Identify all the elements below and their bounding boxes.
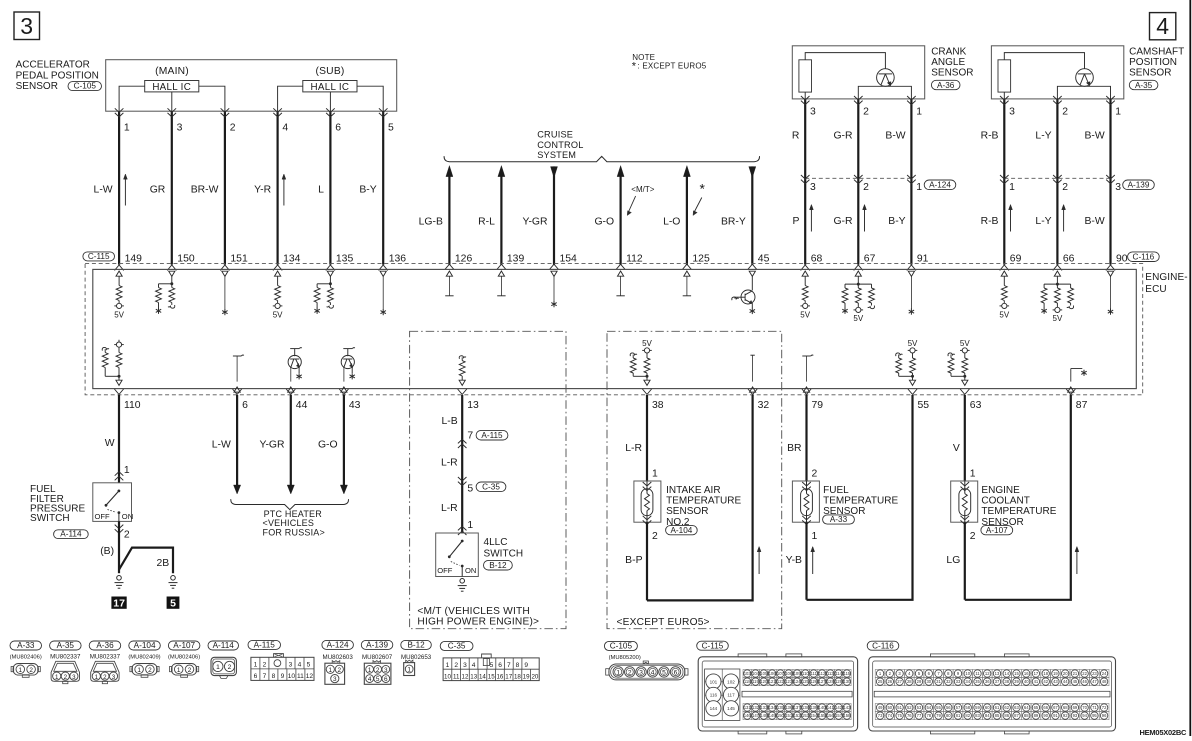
camshaft sensor box	[991, 46, 1123, 99]
svg-text:V: V	[953, 443, 960, 454]
svg-text:145: 145	[727, 706, 735, 711]
svg-text:121: 121	[769, 679, 777, 684]
svg-text:62: 62	[1004, 705, 1009, 710]
svg-text:147: 147	[752, 713, 760, 718]
svg-text:5: 5	[376, 676, 380, 683]
svg-text:150: 150	[777, 713, 785, 718]
ECU connector dashed outline	[85, 264, 1143, 395]
wire L-R from ECU to sensor	[646, 395, 648, 481]
svg-text:SWITCH: SWITCH	[484, 548, 524, 559]
svg-text:66: 66	[1063, 254, 1075, 265]
svg-text:13: 13	[467, 400, 479, 411]
wire Y-GR cruise to ECU 154	[551, 167, 558, 178]
svg-text:5V: 5V	[908, 339, 918, 348]
signal arrow sensor wire 1	[1010, 207, 1012, 232]
svg-text:1: 1	[970, 468, 976, 479]
signal arrow accel sub	[283, 177, 285, 206]
connector drawing A-124	[332, 661, 340, 664]
connector label C-115	[83, 252, 115, 261]
page number box 4	[1150, 13, 1176, 40]
svg-text:L-Y: L-Y	[1035, 216, 1051, 227]
svg-text:B-W: B-W	[1084, 131, 1104, 142]
sensor wire L-Y pin 2 to ECU 66	[1056, 99, 1058, 265]
svg-text:HIGH POWER ENGINE)>: HIGH POWER ENGINE)>	[417, 617, 539, 628]
svg-text:6: 6	[384, 676, 388, 683]
svg-text:BR-W: BR-W	[191, 184, 219, 195]
signal arrow on sensor return	[1076, 549, 1078, 574]
svg-text:11: 11	[975, 671, 980, 676]
connector id A-124	[322, 640, 354, 649]
svg-text:A-114: A-114	[60, 530, 82, 539]
switch lever	[118, 490, 121, 493]
temperature sensor box	[951, 481, 978, 522]
svg-text:FUEL: FUEL	[823, 485, 849, 496]
svg-text:16: 16	[1024, 671, 1029, 676]
svg-text:71: 71	[1092, 705, 1097, 710]
connector id A-35	[50, 641, 82, 650]
svg-text:57: 57	[956, 705, 961, 710]
svg-text:89: 89	[1034, 713, 1039, 718]
svg-text:A-139: A-139	[366, 641, 388, 650]
ECU internal line pin 136	[380, 271, 386, 276]
ECU internal line pin 90	[1107, 271, 1113, 276]
svg-text:SWITCH: SWITCH	[30, 513, 70, 524]
sensor internal resistor	[998, 60, 1011, 92]
svg-text:65: 65	[1034, 705, 1039, 710]
svg-text:96: 96	[1102, 713, 1107, 718]
svg-text:120: 120	[760, 679, 768, 684]
svg-text:B-W: B-W	[1084, 216, 1104, 227]
wire G-O PTC heater	[343, 395, 345, 488]
svg-text:3: 3	[112, 674, 116, 681]
svg-text:2: 2	[1062, 182, 1068, 193]
svg-text:24: 24	[1102, 671, 1107, 676]
svg-text:91: 91	[1053, 713, 1058, 718]
svg-text:HALL IC: HALL IC	[311, 82, 350, 93]
svg-text:74: 74	[887, 713, 892, 718]
svg-text:(MU802406): (MU802406)	[168, 655, 200, 661]
svg-text:L-R: L-R	[441, 458, 458, 469]
svg-text:C-105: C-105	[74, 82, 97, 91]
ECU internal line pin 91	[908, 271, 914, 276]
sensor wire B-W pin 1 to ECU 90	[1109, 99, 1111, 265]
svg-text:138: 138	[802, 705, 810, 710]
svg-text:79: 79	[936, 713, 941, 718]
svg-text:134: 134	[769, 705, 777, 710]
signal arrow sensor wire 2	[864, 207, 866, 232]
ECU internal resistor pair pin 135	[327, 271, 333, 276]
wire GR accel pin 3 to ECU 150	[171, 111, 173, 264]
connector id A-107	[168, 641, 200, 650]
hall ic sub leads	[278, 86, 303, 111]
ECU bottom pin 79	[802, 389, 811, 394]
svg-text:<M/T>: <M/T>	[631, 185, 654, 194]
svg-text:1: 1	[55, 674, 59, 681]
connector drawing oval 2pin	[132, 664, 157, 676]
svg-text:<EXCEPT EURO5>: <EXCEPT EURO5>	[617, 617, 710, 628]
svg-text:POSITION: POSITION	[1129, 57, 1177, 68]
svg-text:7: 7	[263, 673, 267, 680]
wire 2B branch	[119, 548, 173, 574]
svg-text:29: 29	[917, 679, 922, 684]
svg-text:MU802337: MU802337	[90, 654, 121, 661]
svg-text:7: 7	[507, 662, 511, 669]
svg-text:78: 78	[926, 713, 931, 718]
svg-text:3: 3	[1009, 107, 1015, 118]
ECU internal output pin 79	[802, 355, 810, 357]
connector drawing A-114	[211, 657, 236, 675]
wire LG-B cruise to ECU 126	[446, 166, 453, 177]
svg-text:127: 127	[819, 679, 827, 684]
svg-text:158: 158	[843, 713, 851, 718]
svg-text:12: 12	[306, 673, 314, 680]
connector id C-116	[867, 641, 899, 650]
svg-text:130: 130	[843, 679, 851, 684]
svg-text:TEMPERATURE: TEMPERATURE	[823, 496, 898, 507]
svg-text:A-35: A-35	[57, 641, 75, 650]
svg-text:32: 32	[758, 400, 770, 411]
svg-text:9: 9	[281, 673, 285, 680]
wire L-O cruise to ECU 125	[683, 166, 690, 177]
connector drawing oval 2pin	[13, 664, 38, 676]
svg-text:155: 155	[819, 713, 827, 718]
svg-text:44: 44	[296, 400, 308, 411]
svg-text:45: 45	[1073, 679, 1078, 684]
svg-text:3: 3	[20, 13, 33, 39]
svg-text:2: 2	[454, 662, 458, 669]
svg-text:1: 1	[216, 664, 220, 671]
svg-text:P: P	[792, 216, 799, 227]
svg-text:A-36: A-36	[937, 81, 955, 90]
svg-text:5: 5	[662, 670, 666, 677]
svg-text:25: 25	[878, 679, 883, 684]
hall ic main leads	[119, 86, 145, 111]
svg-text:(MAIN): (MAIN)	[155, 66, 189, 77]
svg-text:21: 21	[1073, 671, 1078, 676]
svg-text:1: 1	[95, 674, 99, 681]
svg-text:64: 64	[1024, 705, 1029, 710]
svg-text:67: 67	[1053, 705, 1058, 710]
ECU bottom pin 38	[642, 389, 651, 394]
svg-text:107: 107	[777, 671, 785, 676]
svg-text:66: 66	[1043, 705, 1048, 710]
svg-text:CRANK: CRANK	[931, 46, 966, 57]
svg-text:40: 40	[1024, 679, 1029, 684]
svg-text:1: 1	[368, 667, 372, 674]
signal arrow on sensor return	[758, 549, 760, 574]
svg-text:39: 39	[1014, 679, 1019, 684]
svg-text:94: 94	[1082, 713, 1087, 718]
svg-text:2: 2	[338, 667, 342, 674]
svg-text:70: 70	[1082, 705, 1087, 710]
svg-text:G-R: G-R	[833, 131, 853, 142]
svg-text:102: 102	[727, 679, 735, 684]
svg-text:51: 51	[897, 705, 902, 710]
sensor internal wiring	[1004, 53, 1084, 69]
svg-text:13: 13	[995, 671, 1000, 676]
svg-text:BR: BR	[787, 443, 802, 454]
wire B-P sensor to loop	[646, 522, 648, 600]
svg-text:11: 11	[453, 673, 460, 680]
svg-text:A-115: A-115	[481, 431, 503, 440]
svg-text:A-124: A-124	[929, 181, 951, 190]
connector label A-36	[931, 80, 960, 89]
svg-text:149: 149	[125, 254, 143, 265]
svg-text:92: 92	[1063, 713, 1068, 718]
svg-text:3: 3	[463, 662, 467, 669]
ECU internal line pin 151	[222, 271, 228, 276]
ECU bottom pin 6	[233, 389, 242, 394]
svg-text:1: 1	[916, 107, 922, 118]
svg-text:A-107: A-107	[986, 526, 1008, 535]
svg-text:52: 52	[907, 705, 912, 710]
ECU internal resistor triple pin 67	[855, 271, 861, 276]
connector id C-115	[697, 641, 729, 650]
svg-text:43: 43	[1053, 679, 1058, 684]
svg-text:142: 142	[835, 705, 843, 710]
ECU internal transistor pin 45	[749, 271, 755, 276]
ECU internal pull-up 5V pin 68	[802, 271, 808, 276]
svg-text:Y-R: Y-R	[254, 184, 271, 195]
svg-text:37: 37	[995, 679, 1000, 684]
svg-text:A-33: A-33	[830, 515, 848, 524]
sensor output bus	[858, 86, 911, 99]
wire B-Y accel pin 5 to ECU 136	[382, 111, 384, 264]
svg-text:54: 54	[926, 705, 931, 710]
ECU bottom pin 87	[1066, 389, 1075, 394]
svg-text:HALL IC: HALL IC	[152, 82, 191, 93]
svg-text:14: 14	[479, 673, 486, 680]
ECU bottom pin 44	[286, 389, 295, 394]
connector label A-107	[981, 526, 1013, 535]
svg-text:1: 1	[1115, 107, 1121, 118]
fuel filter pressure switch box	[93, 483, 132, 522]
ECU internal divider pin 110	[118, 340, 120, 342]
svg-text:2: 2	[863, 107, 869, 118]
svg-text:TEMPERATURE: TEMPERATURE	[666, 496, 741, 507]
svg-text:104: 104	[752, 671, 760, 676]
svg-text:G-O: G-O	[594, 217, 614, 228]
intermediate connector dashed line A-124	[805, 177, 911, 179]
svg-text:43: 43	[349, 400, 361, 411]
page divider border right edge	[1189, 0, 1191, 736]
svg-text:1: 1	[467, 520, 473, 531]
svg-text:2: 2	[263, 662, 267, 669]
connector label A-104	[666, 526, 698, 535]
wire R-L cruise to ECU 139	[498, 166, 505, 177]
connector drawing trapezoid 3pin	[91, 661, 119, 681]
svg-text:1: 1	[1009, 182, 1015, 193]
connector label A-33	[823, 515, 855, 524]
connector label C-116	[1128, 252, 1160, 262]
connector id C-105	[604, 641, 637, 650]
svg-text:A-124: A-124	[327, 641, 349, 650]
svg-text:BR-Y: BR-Y	[721, 217, 746, 228]
svg-text:2: 2	[148, 667, 152, 674]
connector label B-12	[484, 560, 513, 570]
svg-text:69: 69	[1010, 254, 1022, 265]
connector label A-139	[1123, 180, 1155, 190]
svg-text:1: 1	[19, 667, 23, 674]
svg-text:77: 77	[917, 713, 922, 718]
svg-text:88: 88	[1024, 713, 1029, 718]
svg-text:8: 8	[516, 662, 520, 669]
svg-text:87: 87	[1076, 400, 1088, 411]
svg-text:2: 2	[812, 468, 818, 479]
sensor wire R-B pin 3 to ECU 69	[1003, 99, 1005, 265]
svg-text:3: 3	[810, 107, 816, 118]
svg-text:10: 10	[288, 673, 296, 680]
wire G-O cruise to ECU 112	[617, 166, 624, 177]
svg-text:4: 4	[282, 123, 288, 134]
ECU internal line pin 154	[551, 271, 557, 276]
svg-text:157: 157	[835, 713, 843, 718]
ECU internal pull-up 5V pin 149	[116, 271, 122, 276]
svg-text:5V: 5V	[999, 310, 1009, 319]
svg-text:112: 112	[626, 254, 643, 265]
svg-text:84: 84	[985, 713, 990, 718]
svg-text:2: 2	[230, 123, 236, 134]
connector drawing trapezoid 3pin	[51, 661, 79, 681]
svg-text:2: 2	[64, 674, 68, 681]
svg-text:1: 1	[254, 662, 258, 669]
svg-text:75: 75	[897, 713, 902, 718]
connector drawing B-12	[406, 660, 413, 662]
svg-text:117: 117	[727, 693, 735, 698]
svg-text:*: *	[632, 60, 637, 72]
sensor wire B-W pin 1 to ECU 91	[910, 99, 912, 265]
svg-text:136: 136	[389, 254, 407, 265]
svg-text:PEDAL POSITION: PEDAL POSITION	[16, 70, 99, 81]
connector id A-114	[208, 641, 239, 650]
signal arrow sensor wire 2	[1063, 207, 1065, 232]
svg-text:125: 125	[692, 254, 710, 265]
svg-text:5V: 5V	[960, 339, 970, 348]
svg-text:19: 19	[1053, 671, 1058, 676]
svg-text:(SUB): (SUB)	[315, 66, 344, 77]
svg-text:6: 6	[242, 400, 248, 411]
svg-text:A-104: A-104	[134, 641, 156, 650]
svg-text:1: 1	[916, 182, 922, 193]
svg-text:115: 115	[844, 671, 851, 676]
ECU internal input pin 112	[618, 271, 624, 276]
ECU internal transistor pin 43	[343, 348, 352, 350]
svg-text:154: 154	[810, 713, 818, 718]
svg-text:136: 136	[785, 705, 793, 710]
svg-text:86: 86	[1004, 713, 1009, 718]
svg-text:B-W: B-W	[885, 131, 905, 142]
svg-text:47: 47	[1092, 679, 1097, 684]
svg-text:SENSOR: SENSOR	[1129, 68, 1171, 79]
svg-text:ENGINE-: ENGINE-	[1145, 272, 1187, 283]
svg-text:4: 4	[368, 676, 372, 683]
svg-text:15: 15	[1014, 671, 1019, 676]
svg-text:1: 1	[177, 667, 181, 674]
svg-text:114: 114	[835, 671, 842, 676]
svg-text:6: 6	[254, 673, 258, 680]
svg-text:B-12: B-12	[489, 561, 507, 570]
svg-text:6: 6	[335, 123, 341, 134]
ECU internal transistor pin 44	[290, 348, 299, 350]
svg-text:68: 68	[811, 254, 823, 265]
svg-text:3: 3	[333, 676, 337, 683]
svg-text:124: 124	[794, 679, 802, 684]
wire V from ECU to sensor	[964, 395, 966, 481]
svg-text:139: 139	[507, 254, 525, 265]
ECU bottom pin 43	[339, 389, 348, 394]
signal arrow accel main	[124, 177, 126, 206]
svg-text:A-139: A-139	[1128, 181, 1150, 190]
svg-text:L-R: L-R	[625, 443, 642, 454]
sensor internal wiring	[805, 53, 885, 69]
svg-text:9: 9	[524, 662, 528, 669]
svg-text:2: 2	[228, 664, 232, 671]
svg-text:151: 151	[785, 713, 793, 718]
wire BR from ECU to sensor	[805, 395, 807, 481]
connector drawing oval 2pin	[171, 664, 196, 676]
svg-text:4: 4	[472, 662, 476, 669]
connector id A-33	[10, 641, 42, 650]
svg-text:SYSTEM: SYSTEM	[537, 150, 576, 160]
svg-text:1: 1	[812, 531, 818, 542]
svg-text:C-35: C-35	[448, 642, 466, 651]
svg-text:45: 45	[758, 254, 770, 265]
ECU bottom pin 63	[960, 389, 969, 394]
svg-text:5V: 5V	[800, 310, 810, 319]
ground loop wire	[807, 395, 913, 600]
svg-text:C-115: C-115	[88, 252, 110, 261]
svg-text:140: 140	[819, 705, 827, 710]
sensor output bus	[1057, 86, 1110, 99]
svg-text:2: 2	[652, 531, 658, 542]
ECU internal resistor triple pin 66	[1054, 271, 1060, 276]
svg-text:123: 123	[785, 679, 793, 684]
ECU bottom pin 13	[458, 389, 467, 394]
svg-text:137: 137	[794, 705, 802, 710]
svg-text:110: 110	[802, 671, 809, 676]
ground loop wire	[647, 395, 753, 600]
svg-text:112: 112	[819, 671, 826, 676]
svg-text:4: 4	[298, 662, 302, 669]
svg-text:90: 90	[1043, 713, 1048, 718]
svg-text:1: 1	[446, 662, 450, 669]
ECU internal pull-up 5V pin 134	[275, 271, 281, 276]
svg-text:113: 113	[827, 671, 834, 676]
svg-text:36: 36	[985, 679, 990, 684]
svg-text:48: 48	[1102, 679, 1107, 684]
wire Y-GR PTC heater	[290, 395, 292, 488]
svg-text:B-Y: B-Y	[888, 216, 905, 227]
wire BR-W accel pin 2 to ECU 151	[224, 111, 226, 264]
svg-text:2: 2	[628, 670, 632, 677]
svg-text:18: 18	[1043, 671, 1048, 676]
ECU internal resistor pair pin 150	[169, 271, 175, 276]
svg-text:ANGLE: ANGLE	[931, 57, 965, 68]
svg-text:Y-B: Y-B	[786, 555, 802, 566]
ground below 4llc switch	[460, 579, 465, 584]
svg-text:60: 60	[985, 705, 990, 710]
svg-text:63: 63	[970, 400, 982, 411]
svg-text:5: 5	[490, 662, 494, 669]
svg-text:135: 135	[336, 254, 354, 265]
svg-text:B-Y: B-Y	[359, 184, 376, 195]
svg-text:5V: 5V	[853, 314, 863, 323]
svg-text:14: 14	[1004, 671, 1009, 676]
svg-text:63: 63	[1014, 705, 1019, 710]
svg-text:INTAKE AIR: INTAKE AIR	[666, 485, 720, 496]
sensor wire R pin 3 to ECU 68	[804, 99, 806, 265]
svg-text:151: 151	[230, 254, 248, 265]
